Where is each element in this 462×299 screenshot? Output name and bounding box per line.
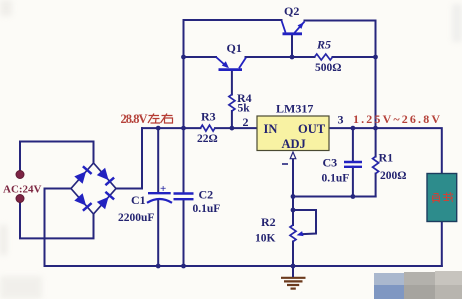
wire Q1 emitter to Q2 collector node <box>246 56 293 58</box>
ground <box>281 278 306 289</box>
resistor R4 <box>229 91 252 115</box>
resistor R3 <box>197 110 218 146</box>
diode D_BL <box>74 193 91 210</box>
svg-text:28.8V: 28.8V <box>121 112 148 126</box>
node label 28.8V <box>121 112 173 126</box>
svg-text:0.1uF: 0.1uF <box>322 173 350 185</box>
svg-text:2: 2 <box>243 115 249 129</box>
wire Q2 collector <box>291 35 293 58</box>
capacitor C2 <box>174 188 221 216</box>
resistor R1 <box>373 151 407 183</box>
wire C1 bottom lead <box>157 201 159 267</box>
wire top rail right <box>305 21 376 58</box>
svg-text:5k: 5k <box>238 103 251 115</box>
svg-text:C3: C3 <box>323 156 338 170</box>
wire ADJ horizontal <box>293 196 376 198</box>
AC source terminals <box>3 171 42 203</box>
wire ADJ lead <box>292 159 294 197</box>
svg-text:ADJ: ADJ <box>282 137 306 151</box>
svg-text:OUT: OUT <box>298 122 326 136</box>
ADJ pin arrow <box>290 152 296 159</box>
wire C1 top lead <box>157 128 159 193</box>
wire C3 leads <box>352 128 354 161</box>
svg-text:R3: R3 <box>201 110 216 124</box>
resistor R5 <box>315 38 342 75</box>
svg-text:AC:24V: AC:24V <box>3 184 42 196</box>
svg-text:IN: IN <box>264 122 278 136</box>
wire R1 leads <box>375 128 377 156</box>
svg-text:R1: R1 <box>379 151 394 165</box>
pin 1 dash <box>282 163 288 165</box>
diode D_TR <box>97 168 114 185</box>
svg-text:0.1uF: 0.1uF <box>193 203 221 215</box>
ground stem <box>292 266 294 277</box>
wire right vertical R5 to OUT rail <box>375 57 377 128</box>
svg-text:500Ω: 500Ω <box>315 62 341 74</box>
svg-text:Q1: Q1 <box>227 41 242 55</box>
svg-text:200Ω: 200Ω <box>380 170 406 182</box>
transistor Q1 <box>216 41 246 70</box>
wire IN rail <box>142 127 201 129</box>
wire AC bottom lead <box>20 203 94 239</box>
potentiometer R2 <box>255 215 304 245</box>
wire C2 vertical (shared long line) <box>183 128 185 193</box>
svg-text:10K: 10K <box>255 233 276 245</box>
wire R4 collector lead <box>231 71 233 95</box>
wire bridge plus riser <box>116 128 142 188</box>
wire load bottom lead <box>441 222 443 267</box>
wire Q1 base branch <box>184 56 217 58</box>
diode D_TL <box>74 166 91 183</box>
load label (CJK drawn strokes) <box>433 192 454 203</box>
diode D_BR <box>97 192 114 209</box>
svg-text:R2: R2 <box>261 215 276 229</box>
load box <box>427 174 457 222</box>
svg-text:+: + <box>160 183 166 195</box>
svg-text:2200uF: 2200uF <box>118 212 154 224</box>
svg-text:1.25V~26.8V: 1.25V~26.8V <box>353 112 440 126</box>
wire AC top lead <box>20 142 94 171</box>
node junction dots <box>156 55 378 269</box>
svg-text:3: 3 <box>338 113 344 127</box>
capacitor C1 (electrolytic) <box>118 183 172 224</box>
regulator U1 LM317 <box>243 102 344 165</box>
capacitor C3 <box>322 156 363 185</box>
wire R5 leads <box>292 56 315 58</box>
svg-text:C1: C1 <box>131 193 146 207</box>
wire bottom bus <box>45 265 442 267</box>
wire bridge minus drop <box>45 189 72 267</box>
svg-text:C2: C2 <box>199 188 214 202</box>
svg-text:LM317: LM317 <box>276 102 313 116</box>
wire R2 wiper loop <box>293 210 316 234</box>
wire top rail left <box>184 20 282 128</box>
svg-text:Q2: Q2 <box>284 4 299 18</box>
svg-text:22Ω: 22Ω <box>197 133 218 145</box>
transistor Q2 <box>282 4 305 34</box>
svg-text:R5: R5 <box>316 38 331 52</box>
watermark mosaic bottom-right <box>374 271 462 299</box>
diode bridge frame <box>71 163 116 214</box>
wire OUT rail <box>329 128 442 173</box>
wire R2 leads <box>292 197 294 226</box>
